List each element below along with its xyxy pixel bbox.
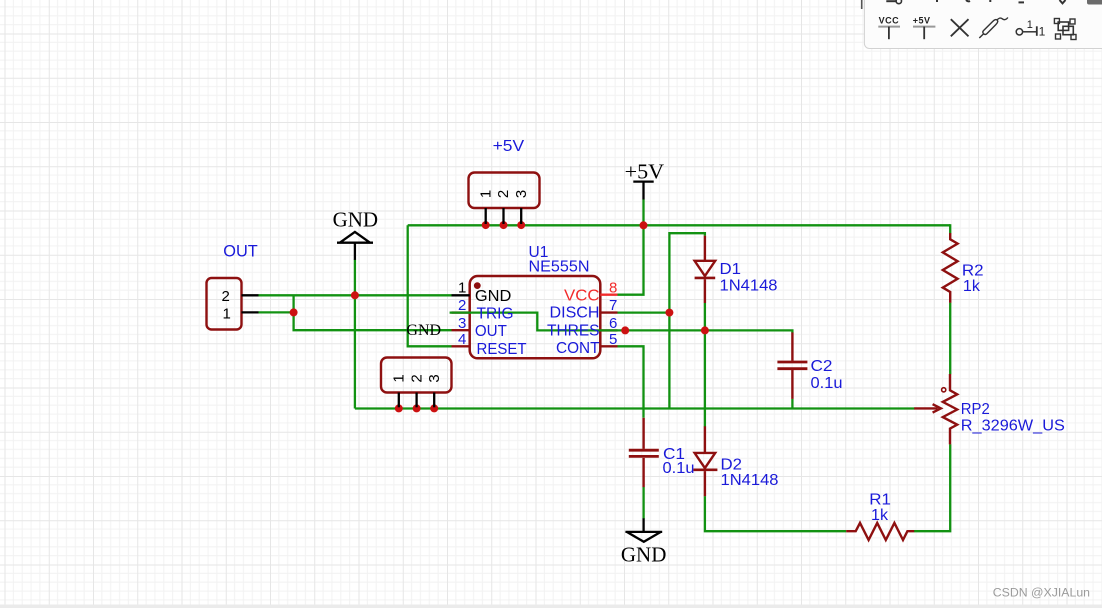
junction header1 pin2 xyxy=(500,221,508,229)
junction OUT pin1 xyxy=(290,308,298,316)
svg-text:3: 3 xyxy=(513,190,530,198)
wire +5V symbol drop xyxy=(642,200,644,226)
junction D column on THRES row xyxy=(701,326,709,334)
svg-text:2: 2 xyxy=(495,190,512,198)
wire DISCH column down to bottom rail xyxy=(668,313,670,409)
svg-text:1: 1 xyxy=(1027,19,1033,31)
pin 3 stub xyxy=(452,329,470,331)
toolbar icon no-connect X xyxy=(951,19,969,36)
svg-text:GND: GND xyxy=(333,208,379,232)
svg-text:CSDN @XJIALun: CSDN @XJIALun xyxy=(993,586,1090,600)
diode D2 1N4148 xyxy=(693,426,717,496)
wire DISCH pin to junction xyxy=(618,311,670,313)
wire RP2 bottom down and left to R1 right lead xyxy=(914,444,950,531)
svg-text:1: 1 xyxy=(477,190,494,198)
svg-text:RP2: RP2 xyxy=(961,401,990,418)
svg-text:OUT: OUT xyxy=(475,323,508,340)
svg-text:0.1u: 0.1u xyxy=(811,375,843,392)
svg-text:0.1u: 0.1u xyxy=(663,460,695,477)
pin 7 stub xyxy=(600,311,617,313)
wire TRIG to THRES jog through chip to C2 corner xyxy=(450,313,793,333)
svg-text:NE555N: NE555N xyxy=(529,259,590,276)
wire D1 bottom through THRES row down to D2 top xyxy=(704,303,706,427)
wire R2 bottom to RP2 top xyxy=(949,303,951,375)
pin 5 stub xyxy=(600,345,617,347)
resistor R1 1k xyxy=(846,523,914,540)
svg-text:+5V: +5V xyxy=(913,16,931,26)
svg-text:1: 1 xyxy=(391,374,408,382)
pin 4 stub xyxy=(452,345,470,347)
resistor R2 1k xyxy=(943,233,958,303)
svg-text:1: 1 xyxy=(223,305,231,322)
diode D1 1N4148 xyxy=(695,236,716,303)
wire VCC jog pin8 to +5V column xyxy=(618,225,644,294)
wire OUT pin1 stub to junction xyxy=(259,311,294,313)
junction header2 pin1 xyxy=(395,404,403,412)
svg-text:6: 6 xyxy=(609,315,617,332)
wire GND column down from symbol to rail corner xyxy=(354,260,356,409)
bottom edge band xyxy=(0,605,1102,608)
op-amp U1 NE555N body xyxy=(450,276,793,358)
wire top +5V rail xyxy=(408,224,951,226)
svg-text:2: 2 xyxy=(458,297,466,314)
wire R1 left lead to D2 bottom corner xyxy=(705,496,846,531)
svg-text:TRIG: TRIG xyxy=(477,306,514,323)
svg-text:8: 8 xyxy=(609,279,617,296)
svg-text:R_3296W_US: R_3296W_US xyxy=(961,417,1065,434)
svg-text:2: 2 xyxy=(408,374,425,382)
svg-text:1k: 1k xyxy=(963,278,980,295)
header P2 (3-pin, bottom left) xyxy=(381,358,452,408)
potentiometer RP2 R_3296W_US xyxy=(914,374,957,444)
toolbar panel xyxy=(864,0,1102,49)
svg-text:4: 4 xyxy=(458,331,466,348)
svg-text:1: 1 xyxy=(1039,25,1046,39)
header P1 (3-pin, top) xyxy=(469,173,540,225)
power symbol +5V xyxy=(633,182,653,200)
toolbar icon net port 1 xyxy=(1016,26,1037,36)
junction header2 pin2 xyxy=(413,404,421,412)
svg-text:1N4148: 1N4148 xyxy=(721,472,779,489)
pin 6 stub xyxy=(600,329,617,331)
connector P OUT (2-pin) xyxy=(207,278,259,330)
wire C2 bottom to rail xyxy=(791,399,793,409)
svg-text:5: 5 xyxy=(609,331,617,348)
capacitor C1 0.1u xyxy=(629,418,659,487)
capacitor C2 0.1u xyxy=(777,332,807,399)
junction THRES pin end xyxy=(621,326,629,334)
svg-text:CONT: CONT xyxy=(556,340,600,357)
junction header2 pin3 xyxy=(430,404,438,412)
svg-text:DISCH: DISCH xyxy=(550,305,600,322)
svg-text:RESET: RESET xyxy=(477,341,528,358)
wire GND row from OUT pin2 to chip pin1 xyxy=(259,294,452,296)
svg-text:+5V: +5V xyxy=(625,159,665,183)
pin 2 stub xyxy=(452,311,470,313)
svg-text:1: 1 xyxy=(458,280,466,297)
svg-text:R2: R2 xyxy=(962,262,984,279)
wire left column from top rail down to RESET row then to pin 4 xyxy=(408,225,452,346)
svg-text:C2: C2 xyxy=(811,358,833,375)
svg-text:OUT: OUT xyxy=(223,241,257,260)
wire bottom rail to RP2 wiper xyxy=(355,407,915,409)
svg-text:3: 3 xyxy=(426,374,443,382)
side mark left of toolbar xyxy=(861,0,863,9)
svg-text:+5V: +5V xyxy=(493,138,525,155)
svg-text:7: 7 xyxy=(609,297,617,314)
svg-text:1k: 1k xyxy=(871,507,888,524)
svg-text:THRES: THRES xyxy=(547,323,600,340)
toolbar partial icons top edge xyxy=(886,0,1065,4)
pin 1 stub xyxy=(452,294,470,296)
pin 8 stub xyxy=(600,294,617,296)
svg-text:VCC: VCC xyxy=(564,287,600,304)
junction DISCH xyxy=(665,309,673,317)
svg-text:GND: GND xyxy=(406,322,441,339)
wire C1 bottom lead to GND symbol xyxy=(642,487,644,519)
svg-text:GND: GND xyxy=(475,288,512,305)
junction header1 pin1 xyxy=(482,221,490,229)
svg-text:1N4148: 1N4148 xyxy=(720,277,778,294)
junction +5V on top rail xyxy=(640,221,648,229)
ground symbol GND (bottom) xyxy=(625,518,662,542)
wire DISCH jog up and over to D1 top xyxy=(669,233,705,312)
svg-text:2: 2 xyxy=(222,288,230,305)
wire OUT net down and right to chip pin3 xyxy=(294,312,452,330)
junction GND column on GND row xyxy=(351,291,359,299)
junction header1 pin3 xyxy=(517,221,525,229)
svg-text:GND: GND xyxy=(621,543,667,567)
toolbar icon group/snippet xyxy=(1054,19,1076,40)
wire CONT jog down to C1 top lead xyxy=(618,346,644,418)
pin 1 marker dot xyxy=(474,282,481,289)
wire R2 top drop from rail xyxy=(949,224,951,233)
svg-text:3: 3 xyxy=(458,315,466,332)
svg-text:D1: D1 xyxy=(720,261,742,278)
ground symbol GND (top) xyxy=(337,232,373,260)
svg-text:VCC: VCC xyxy=(879,16,900,26)
wire OUT connector drop pin2 to pin1 xyxy=(292,295,294,312)
toolbar icon pen/probe xyxy=(979,18,1008,39)
